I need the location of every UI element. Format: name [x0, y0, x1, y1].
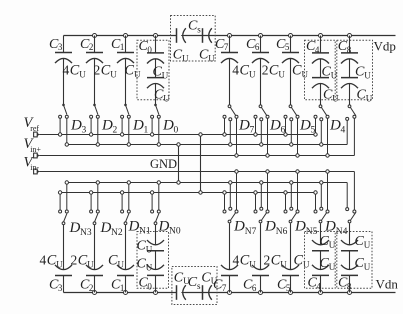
svg-text:N3: N3	[80, 228, 92, 238]
wire GND bus (upper)	[67, 144, 347, 146]
svg-text:D: D	[158, 218, 170, 234]
svg-text:4: 4	[341, 126, 346, 136]
capacitor C7	[228, 34, 232, 38]
svg-text:C: C	[101, 63, 111, 79]
svg-text:U: U	[146, 262, 153, 272]
svg-text:3: 3	[58, 42, 63, 52]
capacitor C4 (two series unit caps) dashed box	[305, 40, 336, 99]
wire D6 contact to Vin+	[267, 118, 269, 155]
svg-text:U: U	[146, 244, 153, 254]
svg-text:U: U	[366, 93, 373, 103]
wire D3 contact to GND	[66, 118, 68, 144]
wire top-plate bus Vdp (right segment)	[184, 35, 395, 37]
svg-text:4: 4	[40, 252, 47, 267]
svg-text:8: 8	[347, 282, 352, 292]
capacitor C6	[259, 34, 263, 38]
wire D0 contact to Vref	[151, 118, 153, 134]
svg-text:C: C	[125, 63, 135, 79]
wire D4 contact to GND	[320, 121, 322, 145]
svg-text:6: 6	[252, 283, 257, 293]
wire CN8 switch contact to GND lower (corner)	[346, 183, 348, 208]
capacitor C5	[289, 34, 293, 38]
switch D7	[228, 105, 231, 108]
capacitor CN4 (two series unit caps) dashed box	[305, 232, 336, 289]
capacitor Cs bottom - series unit cap 1	[176, 285, 178, 300]
capacitor Cs top - series unit cap 2	[202, 28, 204, 43]
svg-text:D: D	[269, 117, 281, 133]
svg-text:2: 2	[89, 42, 94, 52]
svg-text:C: C	[269, 63, 279, 79]
wire DN4 contact to GND (lower)	[320, 183, 322, 208]
wire D4 contact to Vref	[315, 118, 317, 134]
capacitor C8 (two series unit caps) dashed box	[337, 40, 373, 99]
svg-text:U: U	[163, 93, 170, 103]
capacitor CN7	[228, 291, 232, 295]
wire DN6 contact to GND (lower)	[260, 183, 262, 208]
capacitor CN3	[63, 276, 65, 293]
svg-text:2: 2	[94, 63, 101, 78]
svg-text:0: 0	[147, 45, 152, 55]
wire D7 contact to Vref	[224, 118, 226, 134]
svg-text:5: 5	[285, 42, 290, 52]
wire C8 switch contact to GND (corner)	[346, 120, 348, 144]
svg-text:Vdp: Vdp	[374, 38, 396, 53]
port Vin+	[34, 153, 38, 158]
wire CN8 switch contact to Vin- (corner)	[353, 172, 355, 211]
switch D2	[93, 104, 96, 107]
wire DN2 contact to GND (lower)	[97, 183, 99, 211]
svg-text:in+: in+	[30, 145, 41, 154]
svg-text:GND: GND	[150, 157, 177, 171]
svg-text:C: C	[78, 252, 88, 268]
wire D1 contact to Vref	[121, 118, 123, 134]
bridge capacitor Cs (top) dashed box	[171, 16, 216, 62]
wire DN1 contact to GND (lower)	[128, 183, 130, 211]
svg-text:2: 2	[264, 252, 271, 267]
capacitor C8 series unit 2	[349, 59, 351, 77]
wire DN7 contact to GND (lower)	[229, 183, 231, 208]
svg-text:U: U	[56, 259, 63, 269]
switch DN3	[62, 222, 65, 225]
svg-text:U: U	[79, 70, 86, 80]
wire Vin- bus	[39, 171, 354, 173]
wire D7 contact to Vin+	[236, 118, 238, 155]
svg-text:D: D	[264, 218, 276, 234]
wire bottom-plate bus Vdn (right segment)	[184, 292, 395, 294]
svg-text:2: 2	[262, 63, 269, 78]
svg-text:1: 1	[120, 42, 125, 52]
svg-text:0: 0	[147, 282, 152, 292]
wire D6 contact to GND	[260, 121, 262, 145]
capacitor CN0 series unit 2	[155, 251, 157, 269]
svg-text:D: D	[294, 218, 306, 234]
wire D5 contact to Vin+	[297, 118, 299, 155]
switch of CN8 (unlabeled dummy)	[348, 220, 351, 223]
capacitor C1	[124, 34, 128, 38]
wire between series caps (top Cs)	[181, 35, 202, 37]
wire D6 contact to Vref	[255, 118, 257, 134]
wire GND tie vertical	[178, 145, 180, 183]
svg-text:7: 7	[222, 283, 227, 293]
capacitor C4 series unit 2	[320, 59, 322, 77]
capacitor C2	[93, 34, 97, 38]
svg-text:D: D	[238, 117, 250, 133]
capacitor CN4 series unit 1	[319, 291, 323, 295]
capacitor CN8 (two series unit caps) dashed box	[337, 232, 372, 289]
wire DN7 contact to Vref (lower)	[224, 193, 226, 211]
svg-text:N7: N7	[245, 227, 257, 237]
svg-text:D: D	[299, 117, 311, 133]
svg-text:C: C	[240, 252, 250, 268]
capacitor CN0 (two series unit caps) dashed box	[137, 232, 169, 289]
wire D2 contact to GND	[97, 118, 99, 144]
switch D3	[62, 104, 65, 107]
svg-text:C: C	[47, 252, 57, 268]
wire D5 contact to Vref	[285, 118, 287, 134]
svg-text:D: D	[233, 218, 245, 234]
wire Vin+ bus	[39, 155, 354, 157]
wire Vref bus (lower)	[60, 192, 316, 194]
capacitor CN6	[259, 291, 263, 295]
svg-text:C: C	[70, 63, 80, 79]
wire D2 contact to Vref	[90, 118, 92, 134]
wire DN3 contact to GND (lower)	[66, 183, 68, 211]
svg-text:C: C	[292, 63, 302, 79]
wire D4 contact to Vin+	[327, 118, 329, 155]
svg-text:3: 3	[82, 126, 87, 136]
wire DN4 contact to Vin-	[327, 172, 329, 211]
svg-text:D: D	[101, 117, 113, 133]
wire DN4 contact to Vref (lower)	[315, 193, 317, 211]
svg-text:U: U	[87, 259, 94, 269]
switch D1	[124, 104, 127, 107]
wire DN0 contact to Vref (lower)	[151, 193, 153, 211]
wire D7 contact to GND	[229, 121, 231, 145]
bridge capacitor Cs (bottom) dashed box	[172, 267, 217, 305]
svg-text:2: 2	[113, 126, 118, 136]
wire DN5 contact to Vin-	[297, 172, 299, 211]
svg-text:4: 4	[233, 252, 240, 267]
svg-text:U: U	[249, 70, 256, 80]
svg-text:D: D	[100, 220, 112, 236]
capacitor C3	[63, 36, 65, 53]
svg-text:3: 3	[58, 283, 63, 293]
svg-text:4: 4	[316, 282, 321, 292]
wire D3 contact to Vref	[59, 118, 61, 134]
switch D4	[319, 105, 322, 108]
svg-text:C: C	[294, 252, 304, 268]
switch DN2	[93, 222, 96, 225]
wire Vref tie vertical	[200, 135, 202, 193]
wire DN3 contact to Vref (lower)	[59, 193, 61, 211]
svg-text:2: 2	[71, 252, 78, 267]
switch DN6	[259, 220, 262, 223]
svg-text:4: 4	[315, 45, 320, 55]
wire D1 contact to GND	[128, 118, 130, 144]
wire GND bus (lower)	[68, 182, 347, 184]
svg-text:U: U	[364, 71, 371, 81]
switch DN5	[289, 220, 292, 223]
switch DN7	[228, 220, 231, 223]
svg-text:D: D	[329, 117, 341, 133]
svg-text:U: U	[118, 259, 125, 269]
capacitor C0 (two series unit caps) dashed box	[137, 40, 169, 99]
svg-text:U: U	[278, 70, 285, 80]
capacitor Cs bottom - series unit cap 2	[202, 285, 204, 300]
wire DN6 contact to Vin-	[267, 172, 269, 211]
svg-text:in-: in-	[30, 163, 39, 172]
wire DN7 contact to Vin-	[236, 172, 238, 211]
capacitor CN4 series unit 2	[320, 251, 322, 269]
svg-text:U: U	[329, 240, 336, 250]
svg-text:C: C	[240, 63, 250, 79]
svg-text:s: s	[197, 281, 201, 291]
switch D0	[154, 104, 157, 107]
svg-text:N6: N6	[276, 227, 288, 237]
capacitor CN5	[289, 291, 293, 295]
svg-text:7: 7	[224, 42, 229, 52]
wire D5 contact to GND	[290, 121, 292, 145]
svg-text:4: 4	[63, 63, 70, 78]
wire Vref bus	[39, 134, 316, 136]
svg-text:U: U	[329, 262, 336, 272]
wire C8 switch contact to Vin+ (corner)	[353, 118, 355, 155]
svg-text:s: s	[197, 25, 201, 35]
svg-text:C: C	[271, 252, 281, 268]
svg-text:6: 6	[255, 42, 260, 52]
svg-text:U: U	[162, 71, 169, 81]
wire DN2 contact to Vref (lower)	[90, 193, 92, 211]
svg-text:1: 1	[144, 126, 149, 136]
capacitor C4 series unit 1	[319, 34, 323, 38]
svg-text:1: 1	[120, 283, 125, 293]
wire DN1 contact to Vref (lower)	[121, 193, 123, 211]
wire bottom-plate bus Vdn (left segment)	[64, 292, 177, 294]
capacitor Cs top - series unit cap 1	[176, 28, 178, 43]
svg-text:U: U	[302, 70, 309, 80]
wire DN0 contact to GND (lower)	[158, 183, 160, 211]
svg-text:U: U	[208, 53, 215, 63]
svg-text:U: U	[364, 262, 371, 272]
svg-text:D: D	[70, 117, 82, 133]
switch D6	[259, 105, 262, 108]
svg-text:U: U	[364, 240, 371, 250]
switch D5	[289, 105, 292, 108]
wire between series caps (bottom Cs)	[181, 292, 202, 294]
capacitor CN1	[124, 291, 128, 295]
switch DN4	[319, 220, 322, 223]
port Vref	[34, 132, 38, 137]
svg-text:D: D	[132, 117, 144, 133]
svg-text:C: C	[108, 252, 118, 268]
capacitor CN2	[93, 291, 97, 295]
capacitor C8 series unit 1	[348, 34, 352, 38]
svg-text:U: U	[332, 93, 339, 103]
capacitor C0 series unit 1	[154, 34, 158, 38]
wire DN5 contact to Vref (lower)	[285, 193, 287, 211]
switch DN0	[154, 222, 157, 225]
svg-text:D: D	[324, 218, 336, 234]
capacitor CN8 series unit 1	[348, 291, 352, 295]
svg-text:5: 5	[286, 283, 291, 293]
wire top-plate bus Vdp (left segment)	[64, 35, 177, 37]
svg-text:U: U	[182, 53, 189, 63]
switch of C8 (unlabeled dummy)	[348, 105, 351, 108]
svg-text:0: 0	[174, 126, 179, 136]
wire D0 contact to GND	[158, 118, 160, 144]
capacitor C0 series unit 2	[155, 59, 157, 77]
capacitor CN8 series unit 2	[349, 251, 351, 269]
wire DN6 contact to Vref (lower)	[255, 193, 257, 211]
svg-text:U: U	[110, 70, 117, 80]
svg-text:Vdn: Vdn	[376, 277, 399, 292]
svg-text:4: 4	[232, 63, 239, 78]
svg-text:D: D	[162, 117, 174, 133]
svg-text:N0: N0	[169, 227, 181, 237]
wire DN5 contact to GND (lower)	[290, 183, 292, 208]
svg-text:N2: N2	[111, 228, 123, 238]
svg-text:2: 2	[89, 283, 94, 293]
switch DN1	[124, 222, 127, 225]
port Vin-	[34, 169, 38, 174]
svg-text:D: D	[69, 220, 81, 236]
svg-text:8: 8	[347, 45, 352, 55]
svg-text:ref: ref	[30, 124, 39, 133]
capacitor CN0 series unit 1	[154, 291, 158, 295]
